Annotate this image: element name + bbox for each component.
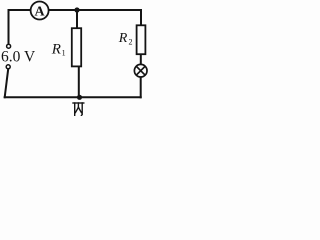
svg-text:1: 1 <box>62 49 66 58</box>
svg-text:6.0 V: 6.0 V <box>1 48 36 65</box>
svg-text:2: 2 <box>129 38 133 47</box>
svg-text:R: R <box>51 41 61 57</box>
svg-text:R: R <box>118 31 128 46</box>
svg-text:A: A <box>35 4 46 19</box>
